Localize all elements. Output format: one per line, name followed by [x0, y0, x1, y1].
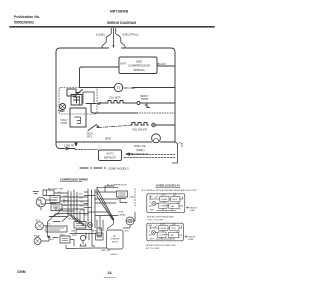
svg-text:BLK: BLK	[50, 239, 54, 241]
wires from overload	[41, 200, 56, 210]
wire dash-dot to heater	[99, 126, 112, 129]
svg-text:BLK: BLK	[149, 196, 153, 198]
svg-text:WHT: WHT	[79, 198, 84, 200]
cold control contact	[75, 117, 81, 124]
wires to compressor box	[97, 216, 114, 231]
terminal box TB1	[43, 190, 54, 196]
wire thermostat to right rail	[133, 87, 175, 89]
bottom rail	[56, 142, 175, 149]
start relay box K1	[50, 196, 60, 203]
svg-text:AC COMPRESSOR: AC COMPRESSOR	[107, 184, 127, 187]
svg-text:A LL MODELS WITH EXTERNAL RELA: A LL MODELS WITH EXTERNAL RELAY AND OVLD…	[142, 189, 198, 192]
svg-text:1.5W TR: 1.5W TR	[64, 145, 74, 148]
wire cluster to heater row	[86, 103, 101, 105]
defrost heater row	[100, 101, 136, 104]
wire bus left group	[68, 190, 77, 218]
wire down to thermostat row	[80, 69, 115, 88]
lamp stand	[80, 235, 85, 240]
bracket and box small	[92, 234, 95, 247]
header: Publication No. block	[14, 15, 40, 24]
ground bars	[33, 192, 39, 194]
svg-text:PTC: PTC	[47, 224, 52, 226]
svg-text:CAP: CAP	[130, 196, 135, 199]
wire: outer right rail	[174, 52, 176, 142]
junction boxes bottom row	[46, 226, 67, 232]
svg-text:COMPRESSOR WIRING: COMPRESSOR WIRING	[60, 179, 88, 182]
lower motor M2	[34, 238, 41, 245]
wire to right rail	[147, 102, 175, 104]
run capacitor C1	[126, 217, 134, 225]
wire BLK/W from compressor box to right rail	[157, 65, 175, 67]
svg-text:DEFROST: DEFROST	[104, 155, 117, 159]
extra tie wires	[50, 193, 88, 217]
overload protector OL1	[36, 197, 46, 207]
svg-text:ORN RED: ORN RED	[123, 86, 135, 90]
blower dashed wire	[124, 157, 175, 159]
svg-text:(NEUTRAL): (NEUTRAL)	[123, 32, 139, 36]
relay variant box B1	[147, 194, 185, 213]
defrost thermostat contact	[137, 101, 140, 104]
wire: outer top rail left	[56, 48, 109, 52]
svg-text:TMR: TMR	[58, 109, 65, 113]
svg-text:MODELS WITH RELAY AND: MODELS WITH RELAY AND	[147, 216, 174, 219]
dashed tie line	[134, 189, 136, 207]
svg-text:OL: OL	[174, 224, 177, 226]
label YELLOW FR 2	[86, 133, 93, 139]
auto defrost row: arrow right	[56, 144, 75, 150]
wire from relay	[44, 214, 57, 238]
AC compressor box	[107, 230, 124, 249]
some-models bracket	[172, 142, 178, 163]
svg-text:PTC: PTC	[163, 195, 167, 197]
right label arrow 1	[187, 207, 190, 209]
caption under box 1	[147, 216, 174, 222]
svg-text:BLK: BLK	[149, 225, 153, 227]
thermostat TT	[114, 83, 122, 91]
svg-text:MR B.: MR B.	[105, 137, 112, 140]
legend SOME MODELS	[80, 167, 106, 169]
svg-text:CAP: CAP	[171, 205, 176, 208]
svg-text:(TRML): (TRML)	[136, 149, 145, 152]
svg-text:OVLD: OVLD	[172, 199, 178, 201]
svg-text:COL WTR: COL WTR	[109, 97, 121, 100]
right label arrow 2	[185, 236, 188, 238]
svg-text:RELAY: RELAY	[161, 227, 168, 230]
svg-text:Publication No.: Publication No.	[14, 15, 40, 19]
nite lite lamp DS1	[152, 134, 161, 143]
svg-text:WHT: WHT	[120, 62, 126, 66]
svg-text:WHT: WHT	[72, 235, 77, 237]
svg-text:RELAY: RELAY	[162, 198, 169, 201]
caption under box 2	[146, 244, 177, 250]
svg-text:WHT: WHT	[150, 238, 155, 240]
timer switch blade	[76, 90, 83, 96]
svg-text:OVERLOAD RELAY: OVERLOAD RELAY	[156, 183, 180, 187]
wire to right rail	[156, 124, 176, 126]
svg-text:INT TO COMP: INT TO COMP	[146, 248, 160, 250]
svg-text:ORN: ORN	[79, 206, 84, 208]
svg-text:COMP: COMP	[161, 206, 167, 208]
wire WHT into compressor box	[80, 67, 120, 69]
svg-text:S: S	[150, 202, 152, 204]
relay coil M1	[35, 222, 43, 230]
svg-text:AC: AC	[113, 235, 116, 238]
svg-text:RUN: RUN	[124, 230, 129, 232]
svg-text:OVLD: OVLD	[60, 234, 66, 236]
cold control box	[70, 108, 86, 127]
svg-text:MRT18FRB: MRT18FRB	[110, 10, 129, 14]
header rule	[10, 26, 214, 28]
arrow into box from right	[126, 153, 133, 155]
timer internal wires	[80, 92, 95, 105]
compressor note box U1	[119, 57, 157, 74]
relay variant box B2	[147, 223, 184, 241]
svg-text:OL: OL	[174, 195, 177, 197]
svg-text:SSOR: SSOR	[112, 242, 118, 244]
defrost limit contact	[152, 123, 156, 127]
defrost heater resistor	[131, 123, 149, 126]
svg-text:R: R	[179, 237, 181, 239]
timer switch box	[67, 89, 76, 96]
small box left of compressor	[97, 228, 102, 236]
aux box	[51, 204, 62, 211]
ground wire bottom	[66, 245, 107, 249]
svg-text:SINGLE: SINGLE	[188, 236, 196, 238]
svg-text:SINGLE: SINGLE	[190, 207, 198, 209]
bus cross wires	[60, 197, 88, 209]
junction dots	[67, 191, 95, 214]
svg-text:MODELS WITH RLY AND OVLD: MODELS WITH RLY AND OVLD	[146, 244, 177, 247]
extra bottom labels	[47, 224, 97, 242]
svg-text:5995256902: 5995256902	[14, 20, 34, 24]
svg-text:GRN YEL: GRN YEL	[101, 250, 111, 252]
svg-text:C59M: C59M	[17, 270, 26, 274]
svg-text:R: R	[180, 209, 182, 211]
wire labels column	[56, 192, 88, 221]
svg-text:TT: TT	[116, 86, 120, 90]
svg-text:PTC: PTC	[162, 224, 166, 226]
svg-text:RUN: RUN	[119, 212, 124, 214]
svg-text:WHT: WHT	[150, 210, 155, 212]
svg-text:BLK: BLK	[79, 194, 83, 196]
auto defrost box	[99, 150, 122, 161]
relay contact symbols	[118, 199, 127, 203]
timer motor M	[60, 104, 66, 110]
label COLD CONT	[61, 119, 69, 125]
defrost timer cluster: dashed housing	[59, 88, 97, 115]
svg-text:CAP: CAP	[170, 234, 175, 237]
timer cam box	[71, 95, 82, 106]
PTC relay box	[117, 191, 128, 197]
svg-text:240400: 240400	[110, 254, 118, 256]
svg-text:S: S	[149, 231, 151, 233]
svg-text:WIRING: WIRING	[133, 68, 145, 72]
svg-text:WIRING DIAGRAM: WIRING DIAGRAM	[107, 21, 136, 25]
svg-text:24: 24	[108, 271, 113, 275]
label RUN CAPAC	[119, 212, 127, 217]
svg-text:PHSE: PHSE	[188, 239, 194, 241]
small boxes mid bottom	[74, 222, 86, 229]
bus extensions down	[80, 209, 95, 230]
line cord arrow	[112, 28, 114, 48]
svg-text:(LINE): (LINE)	[96, 32, 105, 36]
svg-text:AUTO: AUTO	[106, 152, 113, 156]
wire bus right group	[88, 189, 95, 220]
svg-text:OVLD ON COMP: OVLD ON COMP	[147, 220, 164, 222]
wire: outer top rail right	[122, 48, 176, 52]
svg-text:CAPAC: CAPAC	[119, 213, 127, 216]
svg-text:GRN: GRN	[92, 231, 97, 233]
cord funnel	[97, 186, 118, 197]
power plug P1	[102, 29, 125, 49]
svg-text:BLK/W: BLK/W	[158, 62, 167, 66]
wire: outer left rail	[56, 52, 61, 149]
svg-text:CONT: CONT	[61, 122, 69, 125]
svg-text:PHSE: PHSE	[190, 210, 196, 212]
wire: dotted row	[91, 104, 137, 113]
svg-text:COMPRE: COMPRE	[110, 239, 120, 241]
junction arrow down	[75, 142, 77, 146]
diagonal feeders	[49, 211, 86, 227]
run cap to box wire	[123, 212, 135, 228]
label DFRST TMR	[140, 95, 149, 101]
yellow row: switch blade	[88, 125, 99, 131]
wires middle tangle	[88, 192, 118, 216]
svg-text:COMP: COMP	[160, 235, 166, 237]
svg-text:SOME MODELS: SOME MODELS	[108, 167, 129, 171]
svg-text:YELLOW (FR: YELLOW (FR	[132, 128, 147, 131]
svg-text:FR 2: FR 2	[87, 136, 93, 139]
svg-text:CAP: CAP	[71, 230, 76, 233]
svg-text:TERM: TERM	[141, 98, 148, 101]
wire from lower motor	[41, 236, 50, 241]
svg-text:OVLD: OVLD	[171, 228, 177, 230]
svg-text:NITE LITE: NITE LITE	[134, 145, 146, 148]
